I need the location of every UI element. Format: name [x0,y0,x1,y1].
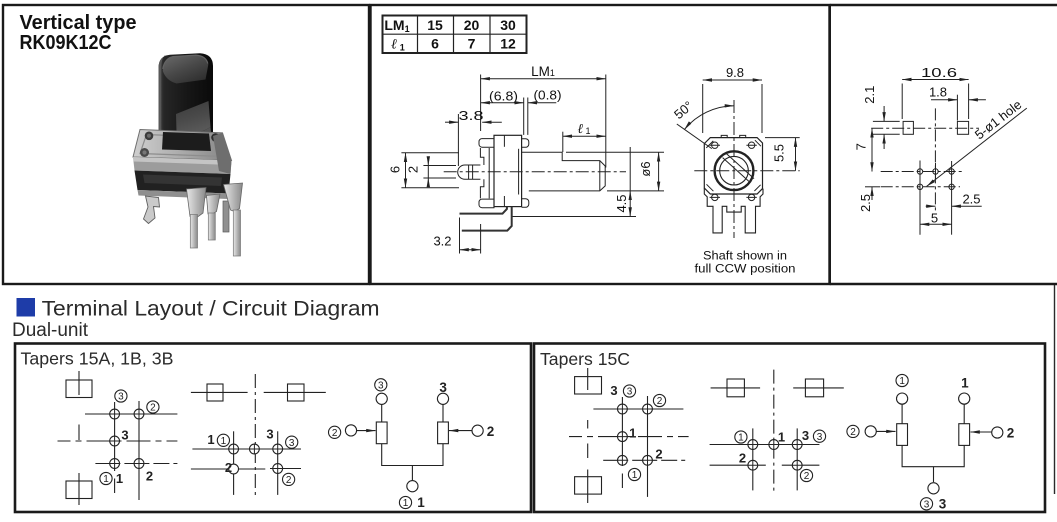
svg-text:2: 2 [150,403,156,414]
case step detail [143,175,222,187]
vertical centerline [78,371,80,505]
flange inner edge [140,135,224,157]
svg-text:ø6: ø6 [638,161,653,176]
50 degree callout [671,98,734,149]
dimension 1.8 [929,85,986,121]
body bracket (left plate) [479,139,494,208]
svg-text:2: 2 [146,469,153,484]
svg-text:6: 6 [431,36,439,52]
mounting lug square top [66,380,92,398]
knob top face [163,55,209,84]
resistor R2 [438,422,449,444]
table frame [383,16,527,54]
wiper 2' terminal [345,425,356,436]
shaft circle [720,156,749,185]
svg-text:3.8: 3.8 [459,108,484,123]
shaft [522,152,606,191]
label c3 [375,379,387,392]
resistor R1 [897,424,908,446]
svg-text:1: 1 [899,376,905,387]
wiper arrow left [876,430,895,432]
label c1 bottom [399,496,411,509]
svg-text:1: 1 [116,471,123,486]
blue section marker [17,298,36,317]
back pin right [223,201,229,232]
terminal 2 crosshair [643,455,653,465]
knob flat notch face [176,101,211,134]
hole row centerlines [881,171,965,173]
collar ring under knob [160,143,212,152]
svg-text:ℓ 1: ℓ 1 [391,38,405,53]
terminal 2 crosshair [134,459,144,469]
dimension 3.8 [445,108,502,166]
back pin left [191,206,197,246]
label c2 left [329,426,341,439]
svg-text:2: 2 [655,447,662,462]
knob top rim highlight [163,55,208,69]
svg-text:1: 1 [738,433,744,444]
dimension 3.2 (bottom) [433,218,480,254]
pin holes 5x [917,169,954,190]
lower row lines [710,464,820,466]
label c2 [283,473,295,486]
terminal column lines [621,397,623,488]
terminal 3 [437,393,448,404]
mounting lug square bottom [66,481,92,499]
svg-text:2: 2 [739,451,746,466]
terminal 1 crosshair [229,444,239,454]
bottom metal lip [138,190,229,199]
wire row middle centerline [569,436,689,438]
centerline through lugs [871,127,979,129]
svg-text:full CCW position: full CCW position [695,262,796,276]
rivet top-right [211,133,220,142]
svg-text:30: 30 [500,17,516,33]
svg-text:5-ø1 hole: 5-ø1 hole [972,97,1025,143]
label c1 [628,468,640,481]
front pin 1 bent [187,188,207,218]
vertical centerline [587,368,589,503]
svg-text:2: 2 [1007,426,1015,441]
svg-text:2.1: 2.1 [862,86,877,104]
svg-text:2: 2 [657,396,663,407]
svg-text:12: 12 [500,36,516,52]
wiper 2' terminal [865,426,876,437]
svg-text:2: 2 [487,424,495,439]
label c1 [735,431,747,444]
terminal c crosshair [250,444,260,454]
terminal 1' crosshair [748,440,758,450]
black case band [135,171,231,194]
vertical centerline [254,374,256,496]
label c2 left [847,425,859,438]
terminal 2 crosshair [748,460,758,470]
box: Vertical type photo panel [3,5,1057,284]
svg-text:1: 1 [629,426,636,441]
svg-text:3: 3 [610,383,617,398]
shaft flat (CCW) [723,154,754,183]
svg-text:Dual-unit: Dual-unit [12,320,89,341]
lug square left [727,379,744,397]
mounting lug square top [575,377,602,394]
right side shade [213,133,232,174]
svg-text:2.5: 2.5 [858,194,873,212]
dimension 9.8 [703,65,762,133]
knob flat ledge [176,127,211,139]
terminal column lines [233,431,235,495]
terminal 1' [897,393,908,404]
terminal 2' crosshair [792,460,802,470]
dimension diam6 (right) [566,152,664,191]
svg-text:Tapers 15A, 1B, 3B: Tapers 15A, 1B, 3B [21,349,174,369]
svg-text:10.6: 10.6 [921,65,957,80]
terminal 1 crosshair [769,440,779,450]
svg-text:6: 6 [388,166,403,173]
wire row middle centerline [58,440,178,442]
terminal 2 open [229,464,239,474]
wires bottom U [902,445,964,482]
table text row LM1 [384,17,516,53]
terminal 3' [376,393,387,404]
mounting lug square bottom [575,477,602,494]
label c3 [286,436,298,449]
svg-text:5: 5 [931,211,938,226]
terminal 1 crosshair [618,432,628,442]
wire row top [593,408,683,410]
terminal 3 crosshair [273,444,283,454]
svg-text:2: 2 [225,460,232,475]
svg-text:2.5: 2.5 [962,192,980,207]
svg-text:1: 1 [403,498,409,509]
svg-text:3: 3 [378,380,384,391]
terminal column lines [752,428,754,490]
dimension l1 [563,121,606,152]
dimension 5 (bottom) [920,211,952,226]
terminal 3 crosshair [110,436,120,446]
wire row bottom [603,459,685,461]
svg-text:3.2: 3.2 [433,234,451,249]
corner rivets [710,142,757,201]
rivet top-left [145,132,154,141]
svg-text:Vertical type: Vertical type [20,12,137,34]
dimension (0.8) [528,88,562,135]
terminal 1' crosshair [110,459,120,469]
lug square right [288,384,305,401]
svg-text:4.5: 4.5 [614,194,629,212]
wires top [382,404,443,422]
svg-text:1: 1 [632,470,638,481]
label c3 [813,430,825,443]
svg-text:3: 3 [627,387,633,398]
svg-text:Shaft shown in: Shaft shown in [703,249,787,263]
front pin 3 bent [224,183,243,212]
lug row line [191,391,326,393]
svg-text:LM1: LM1 [384,17,409,34]
resistor R2 [959,424,970,446]
dimension 2.5 (left) [858,187,880,212]
body top flange [133,130,232,161]
svg-text:1: 1 [778,430,785,445]
mounting lug squares [903,121,913,134]
svg-text:2: 2 [286,475,292,486]
horizontal centerline [444,171,626,173]
terminal 2' crosshair [134,409,144,419]
front pin 2 bent [207,194,221,215]
dimension LM1 [481,64,606,168]
body front metal band [133,157,232,174]
vertical centerline [934,108,936,213]
dimension (6.8) [481,89,524,135]
svg-text:20: 20 [464,17,480,33]
svg-text:Terminal Layout / Circuit Diag: Terminal Layout / Circuit Diagram [42,297,380,321]
leader 5-diam1 hole [927,97,1027,187]
wiper 2 terminal [472,425,483,436]
svg-text:1: 1 [207,432,214,447]
lug square right [805,379,823,397]
extension verticals for 5 / 2.5 [919,161,921,235]
svg-text:7: 7 [854,143,869,150]
svg-text:RK09K12C: RK09K12C [20,32,112,54]
terminal 3' crosshair [618,404,628,414]
rivet bottom-left [140,148,149,157]
svg-text:5.5: 5.5 [772,144,787,162]
lower row lines [191,468,301,471]
center lines [694,170,799,172]
rivet bottom-right [218,151,227,160]
side bracket hook [144,196,160,224]
svg-text:2: 2 [804,471,810,482]
label c2 [800,469,812,482]
svg-text:1: 1 [961,376,969,391]
terminal 3 crosshair [792,440,802,450]
bushing ring [715,151,754,190]
svg-text:50°: 50° [671,98,696,122]
thin right page rule [1054,285,1056,494]
shaft slot (left) [458,165,481,179]
terminal row line [710,444,820,446]
resistor R1 [376,422,387,444]
pot body front outline [704,135,763,232]
dimension 2.5 (right) [926,192,982,207]
dimension 10.6 [902,65,968,119]
svg-text:3: 3 [118,392,124,403]
svg-text:15: 15 [427,17,443,33]
label c3 bottom [920,498,932,511]
terminal row line [192,448,301,450]
wires top [902,404,964,424]
dimension 2.1 [862,86,900,149]
label c3 [115,390,127,403]
svg-text:LM1: LM1 [531,64,555,79]
knob dark cylinder [159,53,214,150]
PC pins (bent) [460,207,512,231]
knob base entering body [162,132,211,151]
label c2 [653,394,665,407]
terminal 2' crosshair [643,404,653,414]
wiper arrow left [357,430,376,432]
svg-text:2: 2 [332,428,338,439]
knob left edge light [159,55,169,151]
terminal column lines [114,402,116,493]
lug row line [711,387,844,389]
svg-text:Tapers 15C: Tapers 15C [540,349,630,369]
terminal 1' crosshair [618,455,628,465]
label c1 [100,472,112,485]
vertical centerline [773,370,775,494]
dimension 6 (left) [388,153,460,188]
svg-text:3: 3 [121,428,128,443]
svg-text:1: 1 [417,495,425,510]
svg-text:(6.8): (6.8) [489,89,518,104]
svg-text:1: 1 [221,436,227,447]
wiper arrow right [971,431,992,433]
terminal 2' crosshair [273,464,283,474]
svg-text:3: 3 [924,499,930,510]
svg-text:ℓ 1: ℓ 1 [577,121,590,136]
svg-text:3: 3 [289,438,295,449]
svg-text:9.8: 9.8 [726,65,744,80]
dimension 2 (left) [406,158,457,184]
svg-text:3: 3 [266,427,273,442]
svg-text:1.8: 1.8 [929,85,947,100]
lug square left [207,384,223,401]
svg-text:(0.8): (0.8) [534,88,562,103]
terminal 1 common [407,481,418,492]
svg-text:2: 2 [850,427,856,438]
terminal 3' crosshair [110,409,120,419]
wire row top [85,413,177,415]
wire row bottom [95,463,177,465]
wiper 2 terminal [992,427,1003,438]
svg-text:3: 3 [939,496,947,511]
terminal 1 [959,393,970,404]
svg-text:3: 3 [802,428,809,443]
label c3 [623,385,635,398]
svg-text:3: 3 [817,432,823,443]
main body outline [494,135,529,207]
label c2 [147,401,159,414]
svg-text:7: 7 [468,36,476,52]
svg-text:1: 1 [103,474,109,485]
svg-text:2: 2 [406,166,421,173]
wires bottom U [382,444,443,481]
dimension 5.5 [765,138,800,171]
label c1 [896,374,908,387]
dimension 7 [854,128,873,171]
wiper arrow right [449,430,472,432]
terminal 3 common [928,483,939,494]
dimension 4.5 (right) [512,147,636,217]
label c1 [217,434,229,447]
